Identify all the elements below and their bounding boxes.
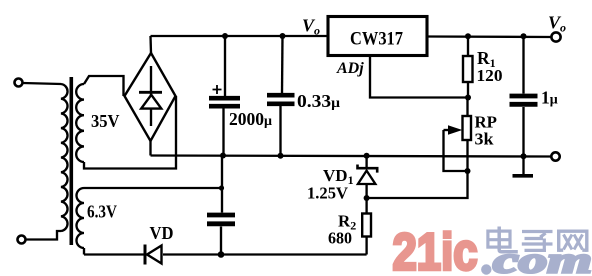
wire 6.3V bottom to rail <box>83 248 85 255</box>
capacitor C1 2000u plates <box>209 96 240 101</box>
svg-text:35V: 35V <box>91 111 120 131</box>
node dot mid rail C1 <box>220 153 226 159</box>
wire RP bottom to R2 top node <box>367 171 468 198</box>
bridge rectifier <box>125 53 176 141</box>
node dot bottom rail C3 <box>218 251 225 258</box>
resistor R1 body <box>463 56 473 82</box>
node dot ADJ R1 RP <box>465 95 471 101</box>
regulator IC CW317 box <box>328 17 427 56</box>
svg-text:Vo: Vo <box>548 13 566 35</box>
svg-text:3k: 3k <box>475 130 495 149</box>
ground <box>522 157 524 175</box>
zener diode VD1 bar <box>358 165 378 173</box>
logo dot of .com <box>481 264 491 274</box>
capacitor C1 2000u lead bottom <box>222 109 224 156</box>
node dot 6.3V top <box>219 185 224 190</box>
svg-text:com: com <box>493 241 592 276</box>
wire top rail <box>151 35 327 37</box>
transformer 6.3V secondary winding <box>77 188 84 248</box>
wire bottom rail <box>84 253 144 255</box>
capacitor C3 lower lead top <box>221 156 223 213</box>
capacitor C1 plus sign <box>213 85 222 94</box>
wire 6.3V top to node A <box>84 187 222 189</box>
node dot top rail C1 <box>222 33 228 39</box>
resistor R1 lead top <box>467 36 469 56</box>
svg-text:120: 120 <box>477 66 503 85</box>
diode VD triangle <box>147 246 162 264</box>
logo char wang <box>559 231 587 252</box>
capacitor C2 0.33u lead top <box>281 36 284 93</box>
capacitor C3 lower plates <box>207 213 235 218</box>
capacitor C4 1u lead top <box>522 36 524 93</box>
svg-text:1.25V: 1.25V <box>307 184 348 203</box>
zener diode VD1 lead top <box>365 156 367 169</box>
node dot VD1 R2 <box>364 195 370 201</box>
svg-text:21ic: 21ic <box>393 224 478 276</box>
wire CW317 output <box>427 35 551 38</box>
svg-text:0.33μ: 0.33μ <box>297 91 340 111</box>
svg-text:Vo: Vo <box>302 16 320 38</box>
resistor R2 lead bottom <box>365 237 367 255</box>
potentiometer RP wiper <box>444 129 453 131</box>
capacitor C3 lower lead bottom <box>220 227 222 255</box>
svg-text:VD: VD <box>150 223 174 243</box>
potentiometer RP body <box>463 116 472 140</box>
svg-text:680: 680 <box>328 229 352 248</box>
node dot mid rail VD1 <box>364 153 370 159</box>
terminal input top-left <box>15 79 23 87</box>
svg-text:ADj: ADj <box>336 60 364 77</box>
potentiometer RP lead bottom <box>466 140 468 171</box>
capacitor C1 2000u lead top <box>224 36 226 96</box>
wire mid rail (negative) <box>151 156 552 157</box>
capacitor C4 1u lead bottom <box>522 107 524 156</box>
transformer core <box>70 77 74 245</box>
zener diode VD1 triangle <box>358 171 376 184</box>
bridge inner diode <box>150 66 152 126</box>
wire CW317 ADJ pin <box>370 56 468 98</box>
diode VD bar <box>144 245 147 265</box>
svg-text:CW317: CW317 <box>350 29 403 50</box>
node dot mid rail C4 <box>521 153 527 159</box>
svg-text:1μ: 1μ <box>541 88 558 108</box>
logo char zi <box>522 232 553 251</box>
zener diode VD1 lead bottom <box>365 184 367 198</box>
node dot top rail R1 <box>465 33 471 39</box>
wire 35V bottom to bridge right corner <box>84 96 176 169</box>
svg-text:6.3V: 6.3V <box>87 202 117 222</box>
wire input top to primary <box>23 83 61 84</box>
logo char dian <box>488 227 518 252</box>
node dot top rail C2 <box>280 33 286 39</box>
capacitor C2 0.33u plates <box>267 93 295 98</box>
terminal input bottom-left <box>18 236 26 244</box>
transformer 35V secondary winding <box>76 84 84 162</box>
resistor R1 lead bottom <box>467 82 469 98</box>
capacitor C2 0.33u lead bottom <box>279 106 281 156</box>
wire bridge top to rail <box>149 36 152 53</box>
wire bridge bottom to rail <box>149 141 151 156</box>
wire 35V top to bridge left corner <box>84 76 124 96</box>
terminal output top Vo <box>551 32 560 41</box>
node dot RP bottom <box>465 168 471 174</box>
transformer T primary winding <box>61 84 68 231</box>
capacitor C4 1u plates <box>510 94 538 99</box>
resistor R2 body <box>362 214 371 237</box>
resistor R2 lead top <box>365 198 367 214</box>
node dot top rail C4 <box>521 33 527 39</box>
wire input bottom to primary <box>26 231 61 240</box>
svg-text:2000μ: 2000μ <box>229 109 272 129</box>
node dot mid rail C2 <box>278 153 284 159</box>
terminal output bottom <box>551 152 559 160</box>
potentiometer RP lead top <box>466 98 468 117</box>
